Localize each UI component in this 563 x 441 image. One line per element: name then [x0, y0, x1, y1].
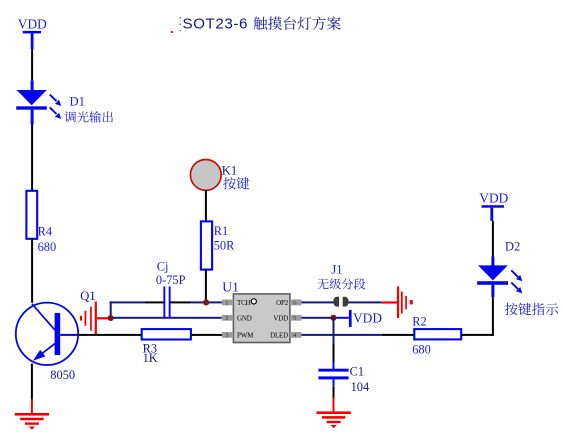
label D2	[505, 239, 520, 253]
svg-text:D2: D2	[505, 239, 520, 253]
svg-text:TCH: TCH	[237, 299, 251, 307]
wire Q1 base to R3	[78, 334, 142, 336]
svg-text:J1: J1	[331, 262, 342, 276]
svg-text:VDD: VDD	[353, 311, 382, 326]
svg-text:VDD: VDD	[18, 16, 47, 31]
label 8050	[50, 368, 75, 382]
svg-text:DLED: DLED	[270, 332, 288, 340]
U1 pin labels TCH GND PWM OP2 VDD DLED	[237, 299, 289, 340]
wire R1 to TCH node	[205, 270, 207, 303]
power VDD (right, above D2)	[479, 191, 508, 221]
title text SOT23-6 触摸台灯方案	[183, 16, 341, 33]
capacitor C1	[318, 369, 348, 380]
button K1	[190, 160, 221, 191]
svg-text:K1: K1	[222, 163, 237, 177]
wire OP2 to J1	[301, 301, 334, 303]
svg-text:5: 5	[293, 315, 296, 322]
svg-text:Q1: Q1	[80, 289, 95, 303]
svg-text:PWM: PWM	[237, 332, 254, 340]
svg-text:VDD: VDD	[479, 191, 508, 206]
svg-text:680: 680	[38, 240, 57, 254]
LED D2	[477, 265, 522, 297]
LED D1	[16, 90, 61, 125]
svg-text:VDD: VDD	[273, 314, 288, 322]
wire Q1 emitter to ground	[31, 364, 33, 414]
resistor R3	[142, 329, 191, 339]
svg-text:8050: 8050	[50, 368, 75, 382]
title cursor mark	[171, 17, 181, 33]
svg-text:680: 680	[412, 343, 431, 357]
IC U1 body	[233, 294, 290, 343]
wire VDD node down to C1	[333, 318, 335, 369]
label 调光输出	[65, 111, 113, 123]
resistor R4	[26, 191, 37, 239]
svg-text:1K: 1K	[143, 351, 158, 365]
svg-text:GND: GND	[237, 315, 252, 323]
label U1	[222, 280, 239, 295]
label J1 无级分段	[317, 262, 365, 289]
power VDD (top left)	[18, 16, 47, 49]
svg-text:6: 6	[293, 300, 296, 307]
U1 pin1 indicator circle	[251, 299, 256, 304]
wire R2 to D2 cathode	[461, 297, 494, 336]
power VDD (mid, at pin5)	[349, 310, 382, 327]
wire GND net (row 2)	[110, 317, 222, 319]
wire K1 to R1	[205, 190, 207, 221]
svg-text:OP2: OP2	[276, 299, 289, 307]
wire VDD to D2 anode	[491, 221, 494, 266]
wire C1 to ground	[333, 379, 335, 411]
svg-text:Cj: Cj	[157, 259, 169, 273]
svg-text:2: 2	[225, 315, 228, 322]
svg-text:D1: D1	[70, 94, 85, 108]
junction dot (VDD node)	[330, 315, 336, 321]
pin 1 (left)	[222, 300, 234, 307]
svg-text:C1: C1	[350, 365, 364, 379]
label 按键指示	[505, 303, 558, 316]
ground (under Q1)	[15, 413, 49, 430]
svg-text:R2: R2	[412, 314, 426, 328]
capacitor Cj	[163, 287, 170, 318]
label R3 1K	[143, 341, 158, 365]
wire TCH net vertical	[110, 301, 112, 318]
transistor Q1 8050	[16, 303, 78, 365]
wire R3 to PWM pin	[191, 334, 222, 336]
svg-text:50R: 50R	[214, 238, 235, 252]
svg-text:U1: U1	[222, 280, 239, 295]
wire DLED row to R2	[301, 334, 414, 336]
touch pad TP2 (red)	[397, 286, 413, 318]
pin 6 (right)	[290, 300, 302, 307]
svg-text:1: 1	[225, 300, 228, 307]
label Q1	[80, 289, 95, 303]
pin 5 (right)	[290, 315, 302, 322]
wire D1 to R4	[31, 125, 33, 191]
svg-text:R1: R1	[214, 224, 228, 238]
wire TCH net horizontal (row 1)	[110, 301, 222, 303]
label D1	[70, 94, 85, 108]
connector J1 pads	[333, 297, 348, 307]
resistor R1	[201, 221, 212, 269]
label K1 按键	[222, 163, 249, 189]
ground (under C1)	[316, 411, 350, 428]
pin 3 (left)	[222, 332, 234, 339]
pin 2 (left)	[222, 315, 234, 322]
junction dot (TP1 node)	[108, 315, 114, 321]
wire VDD pin5 row	[301, 317, 349, 319]
svg-text:R4: R4	[38, 224, 52, 238]
label R2 680	[412, 314, 431, 356]
svg-text:0-75P: 0-75P	[156, 273, 186, 287]
pin 4 (right)	[290, 332, 302, 339]
touch pad TP1 (red)	[80, 302, 111, 335]
svg-text:3: 3	[225, 332, 228, 339]
label C1 104	[350, 365, 370, 395]
label R4 680	[38, 224, 57, 254]
svg-text:SOT23-6: SOT23-6	[183, 16, 248, 33]
label Cj 0-75P	[156, 259, 186, 287]
svg-text:104: 104	[351, 380, 370, 394]
resistor R2	[414, 329, 461, 339]
wire R4 to Q1 collector	[31, 239, 33, 303]
junction dot (TCH node)	[203, 299, 209, 305]
label R1 50R	[214, 224, 235, 252]
wire J1 to touch pad TP2	[343, 301, 397, 303]
wire VDD to D1 anode	[31, 49, 34, 90]
